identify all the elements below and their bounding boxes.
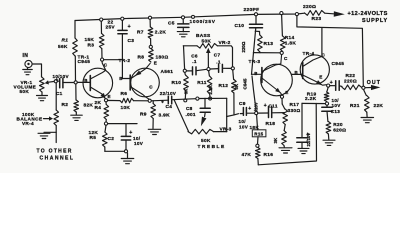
VR-2 wiper arrow (206, 48, 211, 68)
label 2K R4 (95, 100, 102, 111)
svg-text:2.2K: 2.2K (155, 29, 167, 35)
transistor TR-1 C945 (83, 68, 113, 99)
svg-text:R22: R22 (346, 73, 356, 79)
VR-4 wiper arrow (44, 116, 54, 120)
svg-text:R5: R5 (90, 135, 97, 141)
resistor R10 3K (184, 72, 189, 99)
node R16 top (256, 144, 259, 147)
resistor R4 2K (104, 102, 109, 122)
label 50K TREBLE (198, 138, 226, 150)
svg-text:C: C (284, 56, 288, 61)
svg-text:220PF: 220PF (244, 7, 260, 13)
svg-text:3.9K: 3.9K (159, 113, 171, 119)
capacitor C4 electrolytic (161, 96, 196, 105)
supply rail top (75, 13, 305, 20)
resistor R2 82K (74, 84, 79, 115)
svg-text:TR-3: TR-3 (249, 59, 261, 65)
bottom feedback wire (258, 104, 316, 165)
capacitor C9 10/10V (240, 106, 254, 115)
svg-text:R16: R16 (264, 152, 274, 158)
resistor R12 (232, 70, 237, 115)
svg-text:220Ω: 220Ω (303, 4, 316, 10)
resistor R6 10K horizontal (120, 98, 148, 102)
node C7 right (231, 67, 234, 70)
ground under C5 (177, 29, 189, 37)
svg-text:C10: C10 (235, 23, 245, 29)
svg-text:VR-3: VR-3 (220, 126, 232, 132)
svg-text:C945: C945 (332, 61, 345, 67)
svg-text:+: + (330, 80, 333, 86)
svg-text:82K: 82K (84, 103, 94, 109)
svg-text:620Ω: 620Ω (333, 128, 346, 134)
wire C10 down to TR-3 base (252, 28, 256, 75)
wire C3 down to TR-2 base (122, 34, 130, 79)
resistor R20 620ohm (326, 122, 331, 140)
transistor TR-3 C945 (261, 55, 293, 96)
resistor R15 box (252, 130, 266, 137)
label R20 620 (333, 122, 346, 134)
svg-text:E: E (108, 94, 111, 99)
svg-text:330Ω: 330Ω (288, 108, 301, 114)
capacitor C7 .1 (210, 64, 231, 72)
ground under R9 (148, 129, 161, 134)
VR-1 wiper arrow (45, 80, 55, 84)
label VR-1 VOLUME 50K (14, 80, 37, 94)
svg-text:+: + (264, 103, 267, 109)
node TR-3 emitter (280, 95, 283, 98)
extra rail node (192, 15, 195, 18)
riser wire treble (226, 98, 228, 131)
wire VR-4 bottom (44, 126, 56, 133)
node R19 bottom (325, 102, 328, 105)
label 22 25V (106, 20, 116, 31)
resistor R9 3.9K (151, 101, 156, 129)
svg-text:.1: .1 (192, 59, 197, 64)
bass network left riser (184, 46, 185, 69)
svg-text:C9: C9 (239, 101, 246, 107)
label +12-24VOLTS SUPPLY (348, 11, 388, 24)
svg-text:+: + (128, 24, 131, 30)
svg-text:R21: R21 (350, 103, 360, 109)
wire node to treble corner (199, 97, 227, 99)
node R10 wire (184, 99, 187, 102)
label 220 R23 (303, 4, 321, 22)
svg-text:220Ω: 220Ω (241, 41, 246, 52)
svg-text:R2: R2 (62, 102, 69, 108)
svg-text:C11: C11 (269, 104, 278, 109)
wire emitter node R19 row to left cap (302, 102, 327, 104)
wire VR-3 right to riser (214, 131, 227, 133)
node on rail right (295, 13, 298, 16)
svg-text:R15: R15 (254, 132, 263, 137)
svg-text:R13: R13 (264, 41, 274, 47)
svg-text:C2: C2 (108, 136, 115, 142)
svg-text:C13: C13 (331, 109, 340, 114)
svg-text:B: B (84, 78, 87, 83)
resistor R17 330ohm (282, 104, 287, 125)
svg-text:10V: 10V (134, 141, 144, 146)
svg-text:10V: 10V (332, 103, 342, 108)
svg-text:50K: 50K (202, 38, 212, 44)
svg-text:B: B (119, 76, 122, 81)
label R17 330 (288, 102, 301, 114)
svg-text:C: C (149, 84, 153, 89)
wire rail corner down to R1 (74, 21, 76, 39)
label 10/10V C2 (133, 136, 144, 146)
input jack J1 (25, 60, 32, 67)
svg-text:.001: .001 (186, 112, 196, 117)
wire node to C4 (151, 99, 168, 102)
ground at VR-4 (38, 133, 50, 138)
emitter feedback wire y=100 (106, 100, 120, 102)
wire collector node to TR-2 base column (104, 59, 123, 61)
svg-text:C3: C3 (128, 38, 135, 44)
wire R13 bottom to collector node (253, 52, 280, 54)
node on rail at C3 (121, 17, 124, 20)
node TR-1 base (74, 81, 77, 84)
node on rail at R7 (148, 16, 151, 19)
svg-text:C1: C1 (56, 91, 63, 96)
label C6 .1 (191, 54, 198, 64)
label 10/ 10V C9 (239, 119, 249, 129)
label R14 1.8K (285, 35, 297, 47)
svg-text:22K: 22K (374, 103, 384, 109)
capacitor C2 10/10V (121, 130, 132, 149)
svg-text:CHANNEL: CHANNEL (40, 156, 75, 162)
wire R1 to base node (74, 56, 76, 81)
label R19 2.2K (305, 91, 317, 102)
potentiometer VR-3 treble 50K (188, 129, 214, 134)
svg-text:C4: C4 (166, 104, 173, 110)
wire R15 to node (257, 137, 260, 144)
svg-text:+: + (248, 106, 251, 112)
node R7 R8 junction (149, 45, 152, 48)
svg-text:TREBLE: TREBLE (198, 144, 226, 150)
resistor R11 (207, 71, 212, 98)
svg-text:R17: R17 (290, 102, 300, 108)
label TR-1 C945 (78, 54, 91, 65)
svg-text:.1: .1 (216, 59, 221, 64)
node C2 bottom (124, 150, 127, 153)
capacitor C5 1000/25V (178, 19, 189, 27)
node C6 right (207, 68, 210, 71)
capacitor 22/10V output stage (297, 103, 310, 147)
svg-text:47K: 47K (242, 152, 252, 158)
wire TR-3 to TR-4 base (292, 73, 303, 75)
svg-text:C945: C945 (78, 59, 91, 65)
svg-text:1.8K: 1.8K (285, 40, 297, 46)
node R4 bottom (104, 122, 107, 125)
svg-text:R9: R9 (140, 111, 147, 117)
label C7 .1 (214, 52, 221, 64)
node C9 right (255, 112, 258, 115)
resistor R13 220ohm (255, 31, 262, 52)
ground under R20 (323, 140, 335, 145)
ground under jack (23, 68, 33, 75)
svg-text:IN: IN (23, 53, 29, 59)
svg-text:VR-2: VR-2 (219, 40, 231, 46)
capacitor C10 220pF (250, 16, 263, 28)
ground under C2 (121, 153, 134, 164)
svg-text:C8: C8 (186, 106, 193, 111)
transistor TR-2 A561 (130, 63, 159, 99)
capacitor C1 10/10V electrolytic (55, 78, 74, 88)
resistor R16 47K (256, 147, 261, 164)
svg-text:B: B (254, 71, 257, 76)
label BASS 50K (196, 33, 211, 44)
wire R5 bottom to ground node (105, 150, 124, 152)
svg-text:56K: 56K (58, 44, 68, 50)
resistor R18 (282, 125, 287, 148)
wire R4 node to C2 (108, 124, 126, 137)
stub wire right (126, 123, 137, 125)
wire jack to VR-1 (32, 64, 41, 77)
resistor R7 2.2K (148, 19, 153, 45)
label R21 22K (350, 103, 383, 109)
ground under output cap (298, 148, 309, 153)
node TR-1 emitter (104, 99, 107, 102)
svg-text:R23: R23 (312, 16, 322, 22)
branch treble riser to C9 row (227, 114, 239, 117)
svg-text:A561: A561 (161, 69, 174, 75)
resistor R5 12K (103, 125, 108, 151)
svg-text:22/10V: 22/10V (160, 91, 177, 96)
node TR-1 collector (101, 58, 104, 61)
svg-text:1000/25V: 1000/25V (190, 19, 216, 25)
svg-text:50K: 50K (201, 138, 211, 144)
label TO OTHER CHANNEL (37, 149, 75, 162)
label R6 10K (121, 91, 131, 111)
node wiper junction (54, 80, 57, 83)
svg-text:E: E (285, 90, 288, 95)
svg-text:2.2K: 2.2K (305, 96, 317, 102)
svg-text:R11: R11 (197, 80, 206, 86)
treble diagonal wire (174, 100, 189, 132)
svg-text:+: + (161, 100, 164, 106)
resistor R23 220ohm (305, 11, 334, 16)
ground under R18 (279, 148, 292, 153)
svg-text:R6: R6 (121, 91, 128, 97)
wire TR-4 collector up (321, 28, 323, 56)
svg-text:OUT: OUT (367, 80, 381, 86)
wire C9 node up to TR-3 base (252, 76, 256, 112)
svg-text:R8: R8 (138, 55, 145, 61)
label C8 .001 (186, 106, 196, 117)
potentiometer VR-4 balance 100K (54, 110, 59, 126)
svg-text:R4: R4 (95, 105, 102, 111)
label R8 180 (138, 55, 169, 61)
node on rail at C5 (181, 16, 184, 19)
svg-text:R18: R18 (266, 121, 276, 127)
svg-text:50K: 50K (20, 89, 30, 94)
potentiometer VR-1 volume 50K (40, 77, 45, 92)
svg-text:10K: 10K (121, 105, 131, 111)
resistor R3 15K (99, 21, 104, 58)
resistor R14 1.8K (280, 15, 285, 52)
wire TR-3 base (252, 73, 262, 75)
svg-text:TO OTHER: TO OTHER (37, 149, 73, 155)
capacitor C12 electrolytic output (330, 80, 342, 90)
label 12K R5 (89, 130, 99, 141)
label R7 2.2K (137, 29, 166, 35)
wire wiper junction down to VR-4 (55, 83, 57, 110)
svg-text:22/10V: 22/10V (306, 133, 311, 147)
svg-text:R1: R1 (62, 38, 69, 44)
svg-text:R20: R20 (333, 122, 343, 128)
resistor R8 180ohm (149, 49, 154, 63)
svg-text:SUPPLY: SUPPLY (362, 18, 388, 24)
C8 wiper arrow to VR-3 (201, 117, 207, 127)
svg-text:VR-4: VR-4 (22, 121, 34, 126)
output arrow (365, 85, 380, 90)
label 10/ 10V C13 (331, 98, 341, 114)
svg-text:R3: R3 (88, 43, 95, 49)
svg-text:220Ω: 220Ω (344, 79, 357, 85)
wire base node to TR-1 (77, 81, 90, 83)
node output (362, 86, 365, 89)
svg-text:180Ω: 180Ω (156, 55, 169, 61)
label R22 220 (344, 73, 357, 84)
resistor R19 2.2K (324, 87, 329, 101)
label 100K BALANCE VR-4 (17, 112, 43, 126)
capacitor C11 22/10V (264, 103, 285, 117)
svg-text:3K: 3K (234, 83, 239, 89)
svg-text:E: E (154, 60, 157, 65)
svg-text:TR-4: TR-4 (303, 51, 315, 57)
svg-text:3K: 3K (184, 88, 189, 94)
label 15K R3 (85, 37, 95, 49)
resistor R22 220ohm (342, 85, 362, 90)
potentiometer VR-2 bass 50K (183, 44, 232, 67)
capacitor C3 22/25V electrolytic (118, 20, 131, 33)
wire node to R15 (257, 115, 258, 130)
node on rail at C10 (254, 13, 257, 16)
label R9 3.9K (140, 111, 170, 118)
svg-text:10/: 10/ (239, 119, 247, 124)
svg-text:R14: R14 (285, 35, 295, 41)
svg-text:3K: 3K (273, 137, 278, 143)
wire C9 node to C11 (258, 112, 268, 114)
supply branch wire (297, 16, 363, 86)
svg-text:C7: C7 (214, 52, 221, 57)
ground under R2 (71, 115, 83, 120)
wire TR-3 emitter down (281, 98, 283, 104)
node TR-2 collector (148, 99, 151, 102)
svg-text:BASS: BASS (196, 33, 211, 39)
svg-text:10V: 10V (239, 125, 249, 130)
node TR-4 emitter (327, 84, 330, 87)
resistor R1 56K (73, 38, 78, 56)
node R11 wire (209, 97, 212, 100)
svg-text:R10: R10 (172, 80, 182, 86)
arrow to supply (334, 11, 345, 16)
node TR-3 collector (280, 51, 283, 54)
transistor TR-4 C945 (300, 55, 329, 85)
capacitor C8 .001 (200, 98, 210, 116)
wire TR-1 collector up (102, 61, 106, 70)
node on rail at R14 (280, 12, 283, 15)
svg-text:TR-2: TR-2 (119, 58, 131, 64)
resistor R21 22K (364, 90, 370, 117)
capacitor C6 .1 (187, 67, 207, 75)
svg-text:25V: 25V (106, 24, 116, 30)
wire to other channel (55, 132, 57, 142)
svg-text:C5: C5 (168, 21, 175, 27)
node C6 left (183, 69, 186, 72)
svg-text:2.2K: 2.2K (208, 84, 213, 94)
svg-text:+12-24VOLTS: +12-24VOLTS (348, 11, 388, 17)
ground under VR-1 (37, 92, 48, 101)
svg-text:R12: R12 (219, 83, 229, 89)
label R1 56K (58, 38, 68, 51)
node on rail at R3 (100, 18, 103, 21)
node after C4 (196, 97, 199, 100)
capacitor C13 10/10V (322, 105, 332, 121)
svg-text:C945: C945 (243, 78, 248, 89)
svg-text:R7: R7 (137, 29, 144, 35)
svg-text:15K: 15K (85, 37, 95, 43)
ground under R21 (361, 118, 374, 123)
svg-text:E: E (319, 74, 322, 79)
svg-text:10/10V: 10/10V (53, 74, 70, 79)
